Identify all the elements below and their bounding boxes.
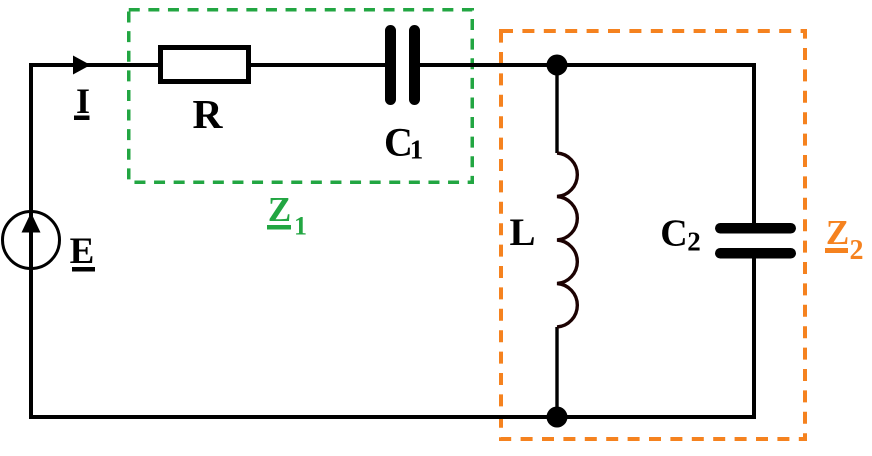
svg-text:Z: Z [268,190,291,229]
capacitor C1 (two vertical plates) [385,25,420,105]
svg-text:I: I [76,81,90,121]
node A (top junction) [547,55,568,76]
wire inductor top stub [555,65,558,153]
svg-text:L: L [509,211,535,254]
wire top (C1 to right corner) [413,63,756,67]
svg-text:R: R [193,91,224,137]
wire right vertical lower [752,258,756,419]
source arrow (inside circle) [22,213,41,233]
inductor L (coil) [557,153,577,327]
svg-text:2: 2 [687,227,701,257]
svg-text:2: 2 [850,235,864,266]
voltage source E (circle) [3,212,60,269]
wire left vertical [29,63,33,419]
label E (source) [70,231,95,272]
label C2 [660,213,700,257]
wire top (left segment to C1) [29,63,392,67]
node B (bottom junction) [547,407,568,428]
current arrow on top wire [73,56,91,75]
capacitor C2 (two horizontal plates) [715,223,796,259]
svg-text:C: C [384,120,413,165]
svg-text:Z: Z [826,213,849,252]
label C1 [384,120,423,165]
wire right vertical upper [752,63,756,223]
resistor R [161,48,249,82]
label I (current) [74,81,90,121]
svg-text:1: 1 [410,135,424,165]
svg-text:C: C [660,213,687,255]
label Z1 (green) [267,190,307,241]
svg-text:1: 1 [294,212,307,241]
label Z2 (orange) [825,213,864,266]
wire bottom [29,415,756,419]
impedance box Z1 (green dashed) [129,10,473,183]
impedance box Z2 (orange dashed) [501,31,805,439]
wire inductor bottom stub [555,327,558,417]
svg-text:E: E [70,231,95,272]
